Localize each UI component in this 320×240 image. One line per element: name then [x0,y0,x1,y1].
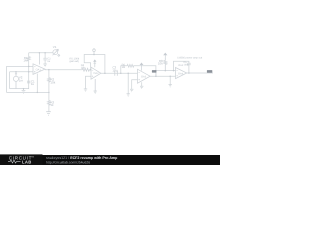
ground op2 [94,79,97,93]
logo box [0,154,43,165]
junction R1 / V- wire [28,66,30,68]
junction op2 output [104,72,106,74]
op-amp OA2 [91,67,101,79]
net flag OUT1 [152,70,157,73]
op-amp OA4 [176,68,187,79]
svg-text:OA2: OA2 [93,72,99,75]
junction C5 / output [188,72,190,74]
wire op2 lower input to ground [84,76,91,91]
junction op4 lower input branch [169,75,171,77]
junction op3 output [155,75,157,77]
junction V2 / V+ wire [15,71,17,73]
vcc arrow op2 [94,62,96,68]
junction inner bottom / ground [23,88,25,90]
wire op-amp1 top supply [38,53,40,65]
vcc arrow R8 [164,54,166,58]
wire top horizontal to source V1 [29,52,53,54]
junction top wire / op1 supply [39,52,41,54]
wire op3 lower input [130,80,138,92]
resistor R4 series [82,68,91,71]
wire op2 feedback top [84,55,105,74]
svg-text:1u: 1u [31,82,35,86]
vcc arrow op3 [141,63,143,70]
junction C1 / V+ wire [28,71,30,73]
net flag bubble op2 [93,49,96,52]
resistor R1 [27,53,30,67]
arrow V1 [53,49,60,56]
ground C2 [43,64,47,67]
junction C5 / op4 input [173,70,175,72]
tiny labels [19,45,203,107]
junction op3 feedback tap [120,72,122,74]
svg-text:TM: TM [31,156,34,159]
wire op-amp1 non-inverting input [10,72,34,89]
junction bias branch [127,72,129,74]
op-amp OA1 [33,64,45,75]
wire op4 lower branch cap to ground [169,76,172,87]
capacitor C2 [43,53,46,64]
svg-text:http://circuitlab.com/c/54u626: http://circuitlab.com/c/54u626 [46,160,90,164]
ground R3 [46,112,51,116]
wire riser to op4 upper input [156,71,176,77]
logo waveform [8,160,21,163]
svg-text:gain adj: gain adj [70,60,80,63]
capacitor C1 [27,81,30,83]
junction top wire / C2 [44,52,46,54]
wire bias to ground mid [127,73,130,96]
source V2 [13,76,18,81]
svg-text:1M: 1M [23,59,28,63]
svg-text:LM386 power amp out: LM386 power amp out [177,56,202,59]
ground op3 supply [140,82,143,88]
junction op1 supply / bottom rail [37,92,39,94]
svg-text:1M: 1M [122,66,126,69]
net flag OUT2 [207,70,212,73]
svg-text:1k: 1k [50,103,54,107]
svg-text:100p: 100p [184,63,190,66]
resistor R2 divider top [46,69,51,115]
svg-text:OA3: OA3 [141,76,147,79]
svg-text:10k: 10k [158,62,163,66]
junction feedback / op2 input [90,69,92,71]
svg-text:OA4: OA4 [178,72,184,75]
source V1 [53,50,58,55]
resistor R3 divider bottom [48,92,51,111]
svg-text:1m: 1m [19,78,24,82]
svg-text:V1: V1 [53,45,57,49]
wire main signal op1 out to op2 [45,69,82,71]
svg-text:10u: 10u [112,68,117,72]
resistor R8 pullup [164,57,167,70]
wire op3 output [150,75,175,77]
wire op4 output [187,72,213,74]
junction flag / feedback wire [93,54,95,56]
resistor R6 feedback op3 [127,64,156,76]
svg-text:10k: 10k [81,67,86,70]
wire op-amp1 bottom supply [36,74,38,93]
junction riser / op4 wire [155,70,157,72]
wire node to op-amp V- input [28,66,30,71]
junction R2 R3 node [48,92,50,94]
junction dots [15,52,189,93]
op-amp OA3 [138,69,151,83]
capacitor C5 feedback op4 [174,61,191,73]
ground input block [22,89,26,94]
junction main wire / R2 [48,69,50,71]
svg-text:LAB: LAB [22,160,32,165]
svg-text:10k: 10k [50,80,55,84]
wire op2 output [101,72,138,74]
wire feedback op3 riser left [121,66,127,73]
svg-text:OA1: OA1 [36,68,42,71]
capacitor C3 [115,71,118,76]
junction pullup R8 [165,70,167,72]
watermark bar [0,155,220,165]
wire op-amp1 inverting input [6,66,49,92]
